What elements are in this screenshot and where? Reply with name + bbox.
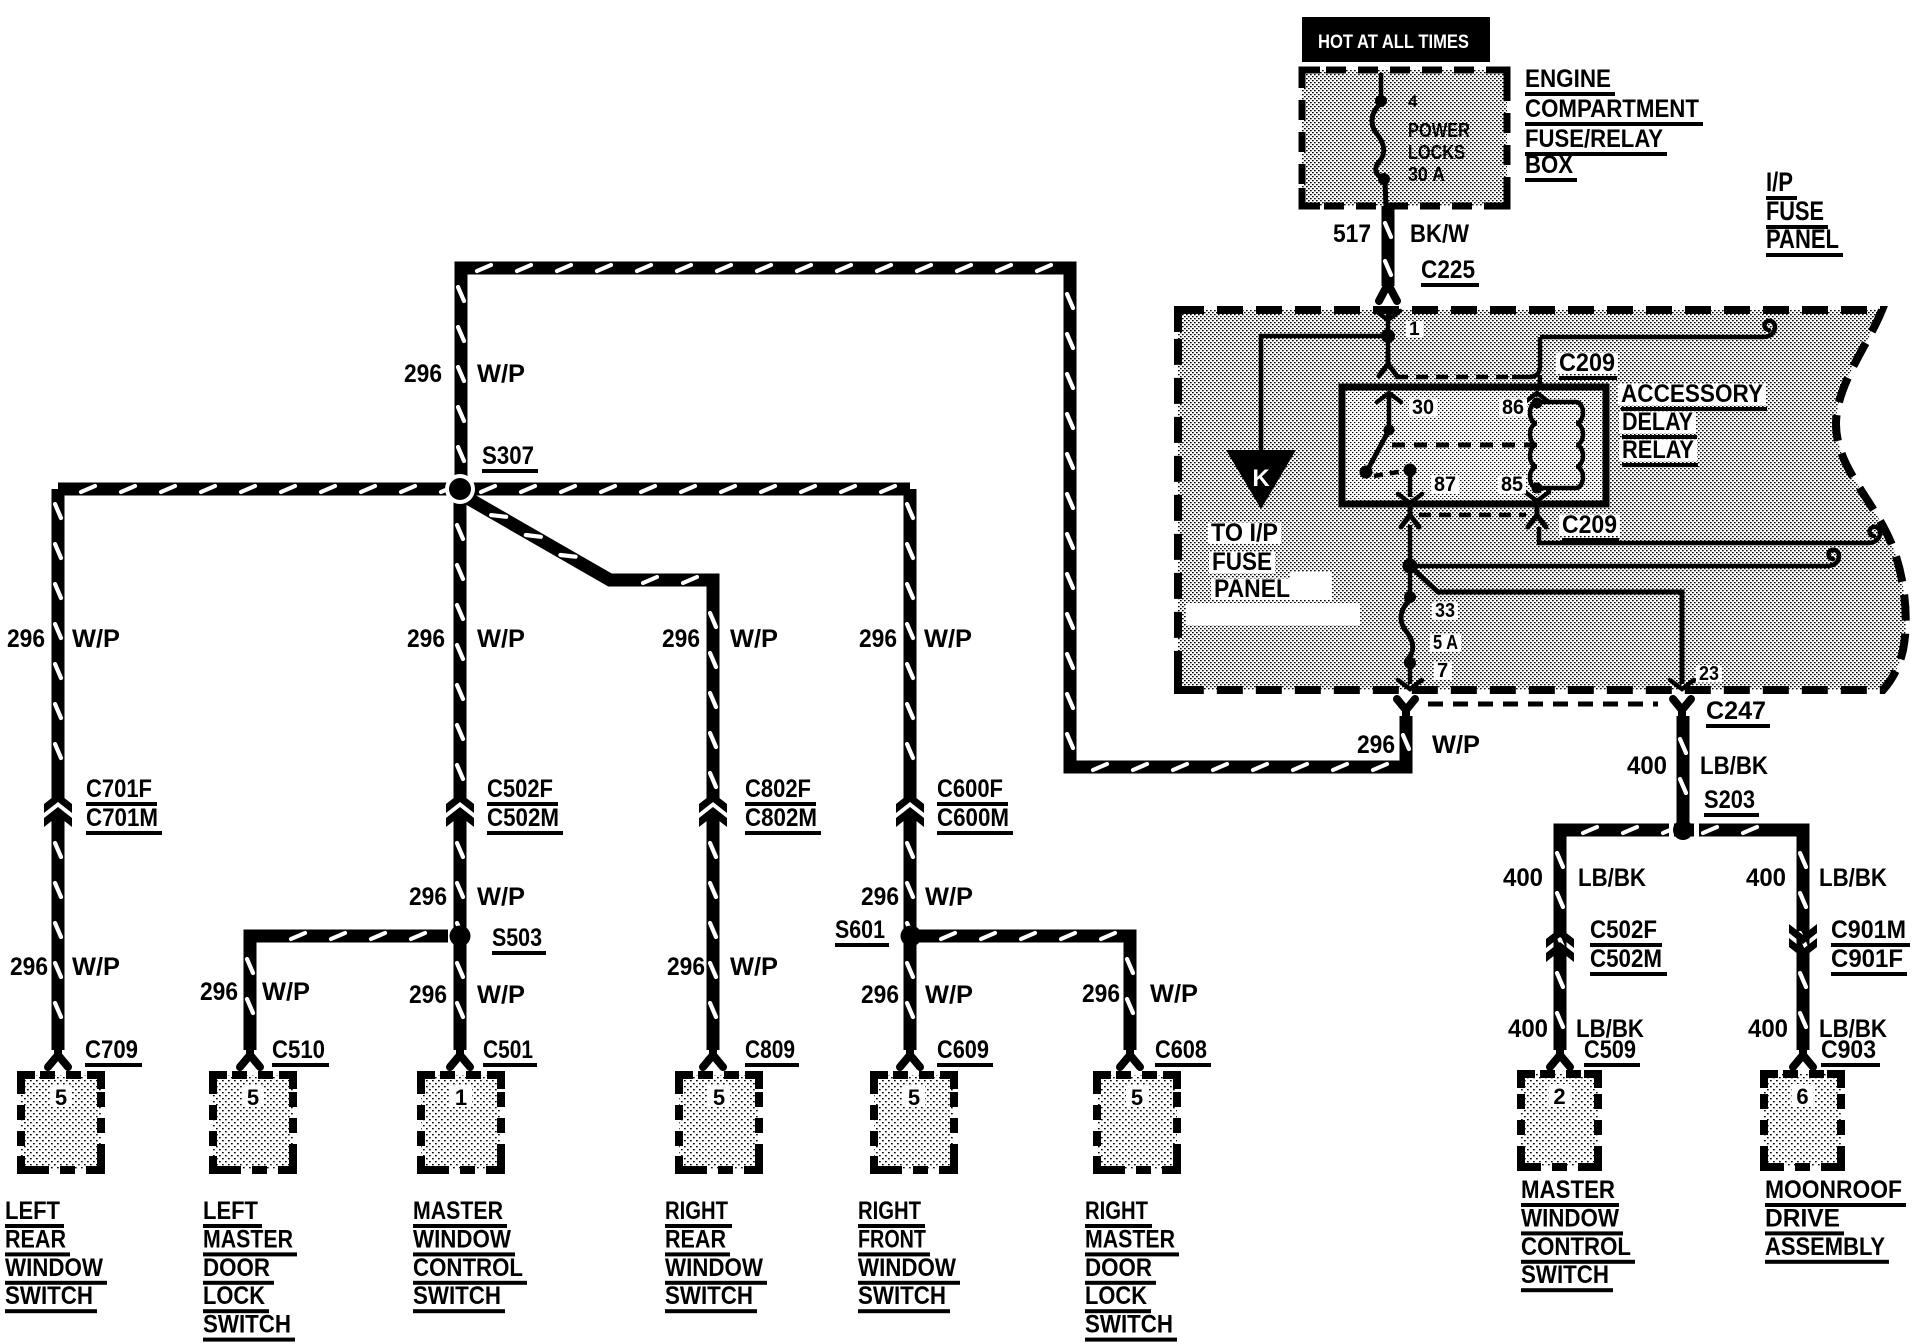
node 1 junction: [1381, 319, 1423, 343]
wire junction1 to K arrow: [1261, 336, 1388, 450]
svg-text:1: 1: [455, 1085, 467, 1110]
svg-text:MOONROOF: MOONROOF: [1765, 1176, 1902, 1204]
relay switch arm: [1360, 430, 1405, 479]
wire labels 296 W/P row2: [10, 953, 778, 981]
svg-text:7: 7: [1437, 660, 1448, 682]
svg-text:SWITCH: SWITCH: [665, 1282, 753, 1310]
wire junction1 down to C209: [1386, 336, 1391, 366]
svg-text:RIGHT: RIGHT: [665, 1197, 728, 1225]
connector C209 upper: [1379, 321, 1775, 400]
svg-text:C509: C509: [1584, 1036, 1636, 1064]
svg-text:W/P: W/P: [477, 360, 525, 388]
panel exit arrow pin 23: [1670, 663, 1722, 689]
svg-text:W/P: W/P: [477, 625, 525, 653]
component box right rear window switch: [679, 1075, 759, 1170]
connector C802F/C802M: [699, 793, 727, 827]
wire pin87 to fuse junction: [1408, 525, 1413, 597]
svg-text:K: K: [1252, 465, 1270, 492]
wire 296 col3 lower: [457, 815, 463, 1050]
wire label 296 W/P at panel exit: [1357, 731, 1480, 759]
svg-text:LB/BK: LB/BK: [1819, 864, 1887, 892]
svg-text:MASTER: MASTER: [1521, 1176, 1615, 1204]
svg-text:C903: C903: [1821, 1036, 1876, 1064]
svg-text:FUSE/RELAY: FUSE/RELAY: [1525, 125, 1663, 153]
svg-text:SWITCH: SWITCH: [1521, 1261, 1609, 1289]
svg-text:6: 6: [1796, 1084, 1808, 1109]
splice S601: [901, 926, 922, 947]
wire labels 296 W/P below splices: [200, 978, 1198, 1009]
svg-text:296: 296: [662, 625, 700, 653]
wire label 517 BK/W: [1333, 220, 1469, 248]
svg-text:400: 400: [1627, 752, 1667, 780]
svg-text:33: 33: [1435, 600, 1455, 622]
connector C600F/C600M: [896, 793, 924, 827]
connector C903: [1793, 1046, 1813, 1067]
svg-text:W/P: W/P: [262, 978, 310, 1006]
label C209 upper: [1556, 349, 1618, 380]
label ENGINE COMPARTMENT FUSE/RELAY BOX: [1525, 65, 1703, 182]
svg-text:W/P: W/P: [925, 981, 973, 1009]
wire labels 400 LB/BK branches: [1503, 864, 1887, 892]
svg-text:30: 30: [1412, 396, 1434, 419]
svg-text:S503: S503: [492, 924, 542, 952]
svg-text:W/P: W/P: [730, 953, 778, 981]
svg-text:5 A: 5 A: [1433, 632, 1458, 654]
svg-text:W/P: W/P: [477, 883, 525, 911]
label RIGHT MASTER DOOR LOCK SWITCH: [1085, 1197, 1179, 1342]
svg-text:30 A: 30 A: [1408, 164, 1445, 186]
wire 296 W/P panel to S307: [458, 265, 1409, 770]
K arrow to I/P fuse panel: [1226, 450, 1296, 509]
wire labels 296 W/P row1: [7, 625, 972, 653]
svg-text:RIGHT: RIGHT: [858, 1197, 921, 1225]
wire 296 horizontal bus at S307: [58, 486, 910, 492]
svg-text:MASTER: MASTER: [203, 1225, 293, 1253]
svg-text:C609: C609: [937, 1036, 989, 1064]
wire 296 col1 upper: [55, 489, 61, 801]
svg-text:87: 87: [1434, 473, 1456, 496]
connector C510: [240, 1046, 260, 1067]
svg-text:C501: C501: [483, 1036, 533, 1064]
component box left master door lock switch: [213, 1075, 293, 1170]
label S307: [482, 442, 538, 473]
connector C247: [1397, 699, 1691, 722]
svg-text:W/P: W/P: [1432, 731, 1480, 759]
svg-text:W/P: W/P: [72, 953, 120, 981]
label MASTER WINDOW CONTROL SWITCH: [413, 1197, 527, 1313]
svg-text:C709: C709: [85, 1036, 138, 1064]
svg-text:C809: C809: [745, 1036, 795, 1064]
svg-text:C502F: C502F: [487, 775, 553, 803]
splice S307: [445, 474, 475, 504]
svg-text:W/P: W/P: [72, 625, 120, 653]
component box right front window switch: [874, 1075, 954, 1170]
component box master window control switch: [421, 1075, 501, 1170]
svg-text:S203: S203: [1704, 786, 1755, 814]
svg-text:SWITCH: SWITCH: [413, 1282, 501, 1310]
svg-text:FUSE: FUSE: [1766, 196, 1824, 226]
relay pin 30: [1377, 393, 1437, 436]
svg-text:COMPARTMENT: COMPARTMENT: [1525, 95, 1699, 123]
svg-text:FRONT: FRONT: [858, 1225, 926, 1253]
svg-text:C247: C247: [1706, 697, 1766, 725]
label LEFT MASTER DOOR LOCK SWITCH: [203, 1197, 297, 1342]
svg-text:CONTROL: CONTROL: [1521, 1233, 1631, 1261]
relay coil: [1530, 398, 1583, 494]
svg-text:C802M: C802M: [745, 804, 817, 832]
svg-text:86: 86: [1502, 396, 1524, 419]
splice S203: [1669, 820, 1699, 840]
svg-text:C209: C209: [1562, 511, 1617, 539]
wire 296 S503 to col2: [247, 933, 448, 1050]
label C247: [1706, 697, 1770, 728]
svg-text:C502M: C502M: [1590, 945, 1662, 973]
svg-text:296: 296: [861, 981, 899, 1009]
label C502F / C502M right: [1590, 916, 1667, 976]
svg-text:BK/W: BK/W: [1410, 220, 1469, 248]
svg-text:296: 296: [10, 953, 48, 981]
svg-text:C901F: C901F: [1831, 945, 1903, 973]
label ACCESSORY DELAY RELAY: [1618, 380, 1767, 467]
svg-text:C510: C510: [272, 1036, 325, 1064]
svg-text:SWITCH: SWITCH: [5, 1282, 93, 1310]
svg-text:POWER: POWER: [1408, 120, 1470, 142]
wire labels 400 LB/BK lower: [1508, 1015, 1887, 1043]
svg-text:MASTER: MASTER: [413, 1197, 503, 1225]
svg-text:400: 400: [1503, 864, 1543, 892]
relay pin 87: [1398, 464, 1459, 504]
svg-text:296: 296: [859, 625, 897, 653]
svg-text:DOOR: DOOR: [203, 1254, 270, 1282]
connector C609: [900, 1046, 920, 1067]
fuse pin label 33: [1432, 600, 1458, 622]
svg-text:SWITCH: SWITCH: [1085, 1311, 1173, 1339]
connector C502F/C502M: [446, 793, 474, 827]
svg-text:RIGHT: RIGHT: [1085, 1197, 1148, 1225]
label RIGHT FRONT WINDOW SWITCH: [858, 1197, 960, 1313]
relay pin 85: [1498, 473, 1549, 501]
component box moonroof drive assembly: [1764, 1074, 1841, 1167]
svg-text:MASTER: MASTER: [1085, 1225, 1175, 1253]
svg-text:296: 296: [409, 981, 447, 1009]
svg-text:ENGINE: ENGINE: [1525, 65, 1611, 93]
svg-text:400: 400: [1748, 1015, 1788, 1043]
svg-text:FUSE: FUSE: [1212, 548, 1272, 576]
relay pin 86: [1499, 393, 1549, 419]
svg-text:ACCESSORY: ACCESSORY: [1621, 380, 1763, 408]
svg-text:C802F: C802F: [745, 775, 811, 803]
svg-text:5: 5: [908, 1085, 920, 1110]
svg-text:RELAY: RELAY: [1622, 436, 1694, 464]
wire junction to pin 23: [1410, 566, 1682, 684]
label S203: [1704, 786, 1759, 817]
svg-text:LEFT: LEFT: [5, 1197, 60, 1225]
component box right master door lock switch: [1097, 1075, 1177, 1170]
label C802F / C802M: [745, 775, 821, 835]
wire label 400 LB/BK: [1627, 752, 1768, 780]
component box left rear window switch: [21, 1075, 101, 1170]
svg-text:4: 4: [1408, 92, 1418, 111]
svg-text:296: 296: [861, 883, 899, 911]
svg-text:TO I/P: TO I/P: [1211, 519, 1278, 547]
svg-text:296: 296: [407, 625, 445, 653]
svg-text:LOCKS: LOCKS: [1408, 142, 1465, 164]
svg-text:296: 296: [7, 625, 45, 653]
wire 296 col3 upper: [457, 497, 463, 801]
svg-text:296: 296: [404, 360, 442, 388]
svg-text:S601: S601: [835, 916, 885, 944]
svg-text:W/P: W/P: [730, 625, 778, 653]
svg-text:1: 1: [1409, 319, 1420, 340]
svg-text:REAR: REAR: [665, 1225, 726, 1253]
svg-text:DOOR: DOOR: [1085, 1254, 1152, 1282]
svg-text:400: 400: [1508, 1015, 1548, 1043]
connector C502F/C502M right: [1546, 928, 1574, 962]
svg-text:ASSEMBLY: ASSEMBLY: [1765, 1233, 1885, 1261]
wire labels 296 W/P above splices: [409, 883, 973, 911]
fuse label 4: [1408, 92, 1418, 111]
svg-text:WINDOW: WINDOW: [858, 1254, 956, 1282]
svg-text:SWITCH: SWITCH: [858, 1282, 946, 1310]
svg-text:C209: C209: [1559, 349, 1615, 377]
svg-text:WINDOW: WINDOW: [413, 1225, 511, 1253]
wire 400 LB/BK C247 to S203: [1680, 716, 1686, 830]
connector C901M/C901F: [1789, 924, 1817, 958]
white patch in panel: [1290, 572, 1332, 600]
label C901M / C901F: [1831, 916, 1910, 976]
svg-text:LEFT: LEFT: [203, 1197, 258, 1225]
connector C509: [1550, 1046, 1570, 1067]
HOT AT ALL TIMES banner: [1302, 17, 1490, 62]
svg-text:CONTROL: CONTROL: [413, 1254, 523, 1282]
svg-text:WINDOW: WINDOW: [5, 1254, 103, 1282]
label C209 lower: [1559, 511, 1620, 542]
svg-text:23: 23: [1699, 663, 1719, 685]
white patch in panel 2: [1186, 603, 1360, 625]
label S503: [492, 924, 546, 955]
connector C225: [1379, 284, 1397, 301]
label C701F / C701M: [86, 775, 162, 835]
fuse POWER LOCKS 30A: [1372, 73, 1390, 208]
svg-text:296: 296: [409, 883, 447, 911]
svg-text:296: 296: [1357, 731, 1395, 759]
label MOONROOF DRIVE ASSEMBLY: [1765, 1176, 1906, 1264]
label C502F / C502M: [487, 775, 563, 835]
component box master window control switch right: [1521, 1074, 1598, 1167]
splice S503: [450, 926, 471, 947]
svg-text:C701F: C701F: [86, 775, 152, 803]
accessory delay relay box: [1342, 387, 1606, 504]
wire 296 col5 lower: [907, 815, 913, 1050]
svg-text:C701M: C701M: [86, 804, 158, 832]
svg-text:C600M: C600M: [937, 804, 1009, 832]
wire 296 col5 upper: [907, 489, 913, 801]
label LEFT REAR WINDOW SWITCH: [5, 1197, 107, 1313]
label TO I/P FUSE PANEL: [1208, 519, 1293, 603]
svg-text:C502M: C502M: [487, 804, 559, 832]
svg-text:C502F: C502F: [1590, 916, 1657, 944]
node junction at fuse: [1403, 559, 1418, 574]
svg-text:2: 2: [1553, 1084, 1565, 1109]
wire 400 LB/BK S203 branches: [1557, 827, 1806, 1050]
svg-text:LOCK: LOCK: [1085, 1282, 1147, 1310]
svg-text:W/P: W/P: [477, 981, 525, 1009]
connector C501: [450, 1046, 470, 1067]
fuse label 5 A: [1430, 632, 1461, 654]
svg-text:5: 5: [247, 1085, 259, 1110]
svg-text:5: 5: [713, 1085, 725, 1110]
svg-text:HOT AT ALL TIMES: HOT AT ALL TIMES: [1318, 32, 1469, 53]
svg-text:I/P: I/P: [1766, 167, 1793, 197]
fuse 5A in panel: [1401, 591, 1416, 684]
engine compartment fuse/relay box: [1302, 70, 1507, 206]
svg-text:LOCK: LOCK: [203, 1282, 265, 1310]
label MASTER WINDOW CONTROL SWITCH right: [1521, 1176, 1635, 1292]
svg-text:S307: S307: [482, 442, 534, 470]
connector C209 lower: [1401, 505, 1880, 543]
wire 296 col4 lower: [710, 815, 716, 1050]
svg-text:5: 5: [1131, 1085, 1143, 1110]
svg-text:LB/BK: LB/BK: [1578, 864, 1646, 892]
svg-text:W/P: W/P: [925, 883, 973, 911]
svg-text:DELAY: DELAY: [1622, 408, 1693, 436]
svg-text:W/P: W/P: [924, 625, 972, 653]
svg-text:85: 85: [1501, 473, 1523, 496]
wire junction to right curl: [1410, 550, 1839, 566]
svg-text:517: 517: [1333, 220, 1371, 248]
svg-text:5: 5: [55, 1085, 67, 1110]
connector C608: [1120, 1046, 1140, 1067]
fuse label POWER LOCKS 30 A: [1408, 120, 1470, 186]
svg-text:C600F: C600F: [937, 775, 1003, 803]
panel entry arrow pin 1: [1376, 310, 1400, 336]
connector C709: [48, 1046, 68, 1067]
wire label 296 W/P above S307: [404, 360, 525, 388]
svg-text:400: 400: [1746, 864, 1786, 892]
label C600F / C600M: [937, 775, 1013, 835]
svg-text:SWITCH: SWITCH: [203, 1311, 291, 1339]
svg-text:WINDOW: WINDOW: [665, 1254, 763, 1282]
svg-text:W/P: W/P: [1150, 980, 1198, 1008]
connector C701F/C701M: [44, 793, 72, 827]
svg-text:DRIVE: DRIVE: [1765, 1204, 1840, 1232]
label I/P FUSE PANEL: [1766, 167, 1843, 257]
fuse pin label 7: [1434, 660, 1452, 682]
wire 296 S601 to col6: [918, 933, 1133, 1050]
svg-text:REAR: REAR: [5, 1225, 66, 1253]
wire 517 BK/W: [1385, 206, 1391, 286]
label C225: [1421, 256, 1479, 287]
svg-text:296: 296: [667, 953, 705, 981]
svg-text:C901M: C901M: [1831, 916, 1906, 944]
svg-text:296: 296: [200, 978, 238, 1006]
svg-text:WINDOW: WINDOW: [1521, 1204, 1619, 1232]
relay actuator dashed link: [1392, 443, 1535, 448]
svg-text:C225: C225: [1421, 256, 1475, 284]
svg-text:PANEL: PANEL: [1214, 575, 1290, 603]
svg-text:296: 296: [1082, 980, 1120, 1008]
label S601: [835, 916, 889, 947]
svg-text:LB/BK: LB/BK: [1700, 752, 1768, 780]
svg-text:C608: C608: [1155, 1036, 1207, 1064]
connector C809: [703, 1046, 723, 1067]
wire 296 col1 lower: [55, 815, 61, 1050]
panel exit arrow pin 7: [1398, 680, 1422, 689]
label RIGHT REAR WINDOW SWITCH: [665, 1197, 767, 1313]
wire 296 diagonal to col4: [464, 496, 716, 801]
svg-text:BOX: BOX: [1525, 151, 1573, 179]
I/P fuse panel outline: [1178, 310, 1906, 690]
svg-text:PANEL: PANEL: [1766, 224, 1839, 254]
